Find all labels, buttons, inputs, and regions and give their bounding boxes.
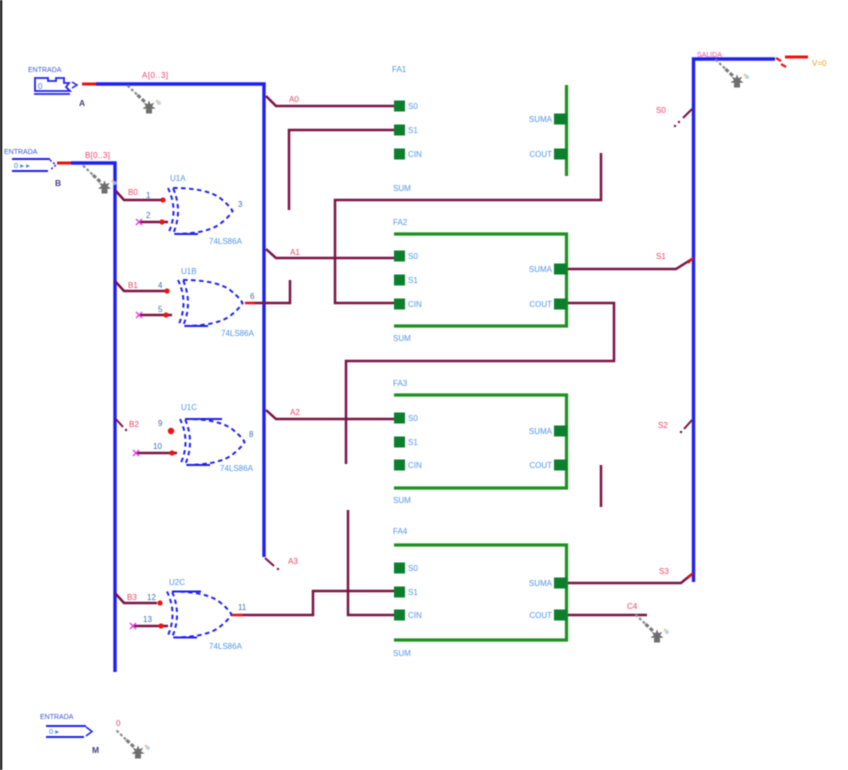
red output wire to probe [785,56,808,59]
wire SUMA4 to S bus [568,574,692,583]
U1B pin 4 wire from B bus [115,281,170,294]
wire FA1.S1 (dangling) [289,130,394,210]
svg-text:6: 6 [250,292,255,301]
svg-text:2: 2 [146,211,151,220]
wire SUMA2 to S bus [568,259,692,269]
svg-text:S0: S0 [408,564,418,573]
svg-text:74LS86A: 74LS86A [221,329,255,338]
net label A0 [289,95,299,104]
net label M0 [116,719,121,728]
svg-text:ENTRADA: ENTRADA [28,67,62,74]
svg-text:SALIDA: SALIDA [697,52,722,59]
xor gate U1D (74LS86A) [167,592,232,638]
svg-text:CIN: CIN [408,461,422,470]
wire A0: A bus tap to FA1.S0 [266,96,394,106]
svg-text:U2C: U2C [169,578,185,587]
svg-text:S1: S1 [656,252,666,261]
bus tap S0 (dangling) [674,109,692,127]
full-adder block FA3 [393,379,567,505]
svg-text:A1: A1 [290,248,300,257]
net label C4 [627,602,638,611]
svg-text:A: A [79,98,85,108]
svg-text:COUT: COUT [529,300,552,309]
wire A1: A bus tap to FA2.S0 [266,249,394,258]
wire COUT4 (dangling right) [568,614,647,617]
cursor arrow 1 [128,86,162,114]
svg-text:CIN: CIN [408,611,422,620]
bus tap S2 (dangling) [680,420,692,433]
svg-text:74LS86A: 74LS86A [209,237,243,246]
cursor arrow 5 [117,731,151,759]
svg-text:SUM: SUM [393,496,411,505]
svg-text:11: 11 [238,603,247,612]
svg-text:SUMA: SUMA [529,427,553,436]
svg-text:S0: S0 [408,414,418,423]
U1C pin 10 wire (dangling with marker) [133,442,177,456]
svg-text:FA3: FA3 [393,379,408,388]
svg-text:COUT: COUT [529,611,552,620]
part ref A [79,98,85,108]
full-adder block FA1 (top, pins only) [392,65,567,193]
cursor arrow 4 [636,615,670,643]
svg-text:U1B: U1B [181,267,197,276]
net label B2 [129,420,139,429]
net label S0 [656,106,666,115]
net label S2 [658,421,668,430]
svg-text:B2: B2 [129,420,139,429]
svg-text:B3: B3 [127,593,137,602]
wire from U1B output (dangling) [254,280,290,303]
svg-text:S1: S1 [408,588,418,597]
net label B1 [128,281,138,290]
svg-text:FA4: FA4 [393,527,408,536]
wire COUT3 stub (dangling) [600,465,603,507]
part ref B [55,178,61,188]
junction S1 on bus [688,258,693,263]
svg-text:SUMA: SUMA [529,579,553,588]
svg-text:SUM: SUM [393,334,411,343]
xor gate U1A (74LS86A) [168,188,233,234]
U1B output red stub [245,302,255,305]
svg-text:4: 4 [158,281,163,290]
input port M (ENTRADA, disconnected) [40,714,92,737]
wire: S bus [694,59,776,582]
U1A pin 2 wire (dangling with marker) [136,211,168,225]
xor gate U1C (74LS86A) [180,419,245,465]
svg-text:ENTRADA: ENTRADA [4,149,38,156]
svg-text:B: B [55,178,61,188]
wire to FA4.CIN (dangling top) [348,510,394,615]
svg-text:74LS86A: 74LS86A [220,464,254,473]
junction S3 on bus [688,573,693,578]
svg-text:CIN: CIN [408,150,422,159]
svg-text:0: 0 [116,719,121,728]
cursor arrow 3 [716,60,750,88]
net label A1 [290,248,300,257]
net label B0 [128,188,138,197]
svg-text:C4: C4 [627,602,638,611]
svg-text:S1: S1 [408,276,418,285]
svg-text:S1: S1 [408,126,418,135]
svg-text:5: 5 [158,305,163,314]
input port A (ENTRADA logic-state) [28,67,77,94]
wire from U1D output to FA4.S1 [242,591,394,615]
wire COUT2 (dangling down-left) [346,303,614,464]
input port B (ENTRADA) [4,149,56,171]
bus tap A3 (dangling at bus end) [265,558,279,570]
svg-text:B[0..3]: B[0..3] [85,151,110,160]
wire: B bus [71,163,115,672]
svg-text:0: 0 [38,82,43,91]
red pin stub of input A [82,83,96,86]
svg-text:3: 3 [238,200,243,209]
svg-text:74LS86A: 74LS86A [209,642,243,651]
full-adder block FA2 [393,218,567,343]
net label A3 [288,557,298,566]
U1D pin 13 wire (dangling with marker) [130,615,168,629]
svg-text:U1A: U1A [170,174,186,183]
svg-text:A2: A2 [290,408,300,417]
svg-text:0 ▸ ▸: 0 ▸ ▸ [14,161,30,170]
U1D pin 12 wire from B bus [115,593,163,606]
svg-text:M: M [92,745,99,755]
svg-text:8: 8 [249,430,254,439]
value label V=0 [812,59,827,68]
svg-text:13: 13 [143,615,152,624]
svg-text:FA1: FA1 [392,65,407,74]
svg-text:COUT: COUT [529,461,552,470]
wire A2: A bus tap to FA3.S0 [266,410,394,419]
svg-text:FA2: FA2 [393,218,408,227]
svg-text:COUT: COUT [529,150,552,159]
svg-text:A3: A3 [288,557,298,566]
wire COUT1 to CIN2 [335,153,601,303]
svg-text:SUM: SUM [393,184,411,193]
svg-text:B0: B0 [128,188,138,197]
svg-text:SUM: SUM [393,649,411,658]
svg-text:A[0..3]: A[0..3] [142,71,169,80]
svg-text:CIN: CIN [408,300,422,309]
svg-text:SUMA: SUMA [529,115,553,124]
net label SALIDA [697,52,722,59]
net label S1 [656,252,666,261]
xor gate U1B (74LS86A) [178,280,243,326]
U1B pin 5 wire (dangling with marker) [136,305,172,318]
svg-text:S0: S0 [408,102,418,111]
U1A pin 1 wire from B bus [115,190,166,203]
svg-text:A0: A0 [289,95,299,104]
wire: A bus [96,84,264,557]
full-adder block FA4 [393,527,567,658]
window border left edge [0,0,2,770]
svg-text:ENTRADA: ENTRADA [40,714,74,721]
B2 bus tap (dangling) [115,418,127,431]
net label B3 [127,593,137,602]
svg-text:12: 12 [147,593,156,602]
svg-text:1: 1 [146,191,151,200]
svg-text:V=0: V=0 [812,59,827,68]
net label B[0..3] [85,151,110,160]
svg-text:S0: S0 [408,252,418,261]
svg-text:S2: S2 [658,421,668,430]
svg-text:SUMA: SUMA [529,265,553,274]
cursor arrow 2 [83,166,117,194]
U1D output red stub [232,614,243,617]
svg-text:0 ▸: 0 ▸ [49,727,59,736]
svg-text:U1C: U1C [181,403,197,412]
net label S3 [659,567,669,576]
svg-text:9: 9 [158,419,163,428]
svg-text:S0: S0 [656,106,666,115]
svg-text:S1: S1 [408,438,418,447]
part ref M [92,745,99,755]
net label A2 [290,408,300,417]
red pin stub of input B [57,162,71,165]
svg-text:10: 10 [153,442,162,451]
U1C pin 9 (unconnected, red dot) [158,419,174,434]
svg-text:S3: S3 [659,567,669,576]
net label A[0..3] [142,71,169,80]
svg-text:B1: B1 [128,281,138,290]
red no-connect marker [776,58,786,67]
